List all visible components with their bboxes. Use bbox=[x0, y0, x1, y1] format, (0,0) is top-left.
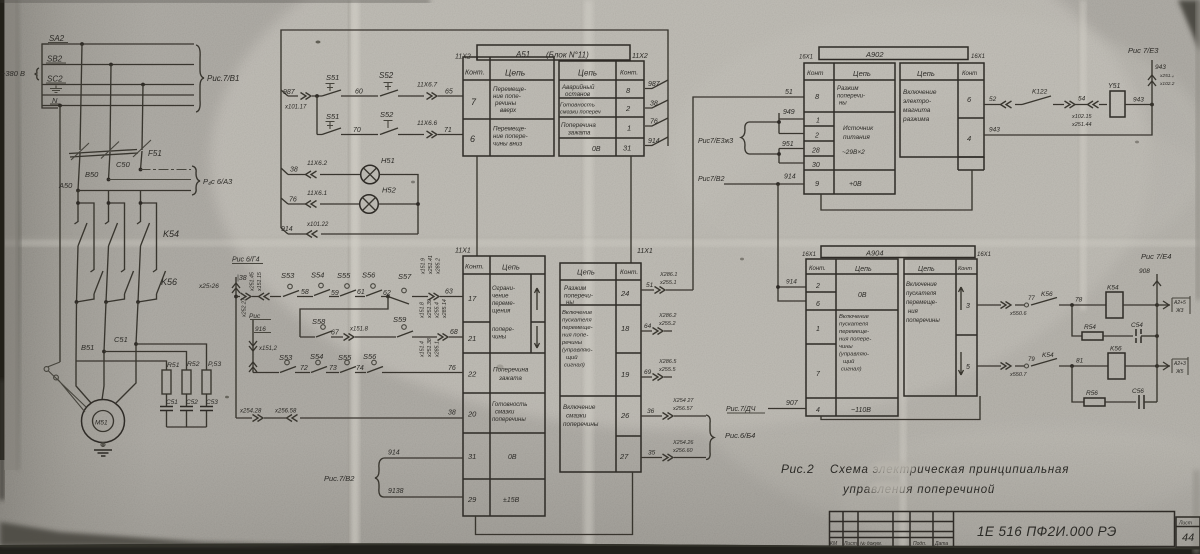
capacitor C52 bbox=[180, 394, 198, 427]
svg-text:81: 81 bbox=[1076, 358, 1084, 365]
svg-text:x255.1: x255.1 bbox=[659, 280, 677, 286]
svg-text:Готовность: Готовность bbox=[492, 402, 527, 408]
contact K54 bbox=[137, 222, 141, 225]
svg-text:R51: R51 bbox=[167, 362, 180, 369]
wire 914 to pin9 bbox=[698, 174, 806, 302]
switch S55 row3 bbox=[340, 367, 356, 373]
svg-text:Ж5: Ж5 bbox=[1175, 369, 1184, 375]
svg-text:K54: K54 bbox=[1042, 352, 1054, 359]
svg-text:ния попере-: ния попере- bbox=[839, 337, 871, 343]
creases / folds bbox=[348, 0, 351, 554]
svg-text:74: 74 bbox=[356, 365, 364, 372]
svg-text:C50: C50 bbox=[116, 160, 131, 169]
svg-text:Puc7/Е3ж3: Puc7/Е3ж3 bbox=[698, 138, 733, 145]
svg-text:907: 907 bbox=[786, 400, 799, 407]
svg-text:C53: C53 bbox=[206, 399, 218, 406]
svg-text:чины: чины bbox=[492, 335, 507, 341]
svg-text:78: 78 bbox=[1075, 297, 1083, 304]
svg-text:x151.8: x151.8 bbox=[420, 302, 426, 319]
node junction bbox=[139, 201, 143, 205]
svg-text:908: 908 bbox=[1139, 268, 1150, 275]
node junction bbox=[76, 201, 80, 205]
svg-text:Аварийный: Аварийный bbox=[561, 84, 595, 91]
svg-text:попере-: попере- bbox=[492, 327, 514, 333]
motor terminals bbox=[44, 367, 49, 372]
svg-text:11X1: 11X1 bbox=[455, 248, 471, 255]
svg-text:16X1: 16X1 bbox=[977, 252, 991, 258]
svg-text:S55: S55 bbox=[338, 353, 352, 362]
wire row2 bbox=[300, 299, 463, 340]
svg-text:ны: ны bbox=[566, 299, 574, 306]
contact K54 bbox=[105, 222, 109, 225]
svg-text:A904: A904 bbox=[865, 249, 884, 258]
svg-text:Конт: Конт bbox=[958, 266, 972, 272]
svg-text:x255.4: x255.4 bbox=[435, 302, 441, 319]
capacitor C54 bbox=[1136, 329, 1141, 343]
wire 65 to pin7 bbox=[417, 82, 463, 100]
svg-text:вверх: вверх bbox=[500, 107, 517, 114]
svg-text:пускателя: пускателя bbox=[562, 318, 592, 324]
svg-text:0B: 0B bbox=[592, 146, 601, 153]
svg-text:x285.14: x285.14 bbox=[442, 299, 448, 319]
wire 914 lamp return bbox=[281, 222, 418, 238]
svg-text:S53: S53 bbox=[279, 353, 293, 362]
svg-text:Цепь: Цепь bbox=[577, 268, 595, 277]
svg-text:P₄c 6/A3: P₄c 6/A3 bbox=[203, 177, 233, 186]
svg-text:54: 54 bbox=[1078, 96, 1086, 103]
svg-text:Puc7/B2: Puc7/B2 bbox=[698, 176, 725, 183]
svg-text:x25›26: x25›26 bbox=[198, 283, 219, 290]
svg-text:S59: S59 bbox=[393, 315, 407, 324]
svg-text:K122: K122 bbox=[1032, 89, 1048, 96]
svg-text:поперечины: поперечины bbox=[906, 318, 940, 324]
svg-text:72: 72 bbox=[300, 365, 308, 372]
svg-text:|38: |38 bbox=[237, 275, 247, 282]
svg-text:Готовность: Готовность bbox=[560, 103, 595, 109]
svg-text:5: 5 bbox=[966, 364, 970, 371]
svg-text:77: 77 bbox=[1028, 296, 1035, 302]
svg-text:Puc.6/Б4: Puc.6/Б4 bbox=[725, 431, 755, 440]
svg-text:76: 76 bbox=[289, 197, 297, 204]
svg-text:X286.1: X286.1 bbox=[659, 272, 677, 278]
svg-text:SA2: SA2 bbox=[49, 34, 65, 43]
svg-text:x151.8: x151.8 bbox=[349, 327, 369, 333]
svg-text:21: 21 bbox=[467, 334, 476, 343]
switch S59 bbox=[397, 331, 413, 337]
svg-text:38: 38 bbox=[650, 101, 658, 108]
wire A bbox=[76, 302, 91, 403]
wire 52 K122 Y51 bbox=[984, 83, 1154, 128]
svg-text:914: 914 bbox=[784, 174, 796, 181]
svg-text:щения: щения bbox=[492, 309, 511, 315]
svg-text:Перемеще-: Перемеще- bbox=[493, 126, 526, 133]
svg-text:S52: S52 bbox=[379, 71, 394, 80]
svg-text:68: 68 bbox=[450, 329, 458, 336]
table A904 left bbox=[806, 259, 898, 416]
svg-text:943: 943 bbox=[1133, 97, 1144, 104]
svg-text:67: 67 bbox=[331, 330, 340, 337]
svg-text:X286.5: X286.5 bbox=[658, 359, 677, 365]
svg-text:Конт.: Конт. bbox=[809, 266, 826, 272]
svg-text:38: 38 bbox=[290, 167, 298, 174]
caption figure title bbox=[781, 461, 1069, 496]
wire capacitor common rail bbox=[167, 426, 207, 428]
svg-text:x151.9: x151.9 bbox=[421, 258, 427, 275]
svg-text:51: 51 bbox=[646, 282, 654, 289]
svg-text:C51: C51 bbox=[114, 335, 128, 344]
svg-text:16X1: 16X1 bbox=[799, 55, 813, 61]
wire A904 outline bbox=[821, 396, 980, 420]
table 11X1 right bbox=[560, 263, 641, 472]
svg-text:Цепь: Цепь bbox=[578, 69, 597, 78]
svg-text:71: 71 bbox=[444, 127, 452, 134]
svg-text:зажата: зажата bbox=[498, 375, 522, 382]
wire pin5 to K56 coil bbox=[977, 346, 1188, 380]
contact K54 bbox=[1031, 359, 1057, 367]
svg-text:1: 1 bbox=[816, 326, 820, 333]
svg-text:Конт.: Конт. bbox=[620, 70, 638, 77]
wire 914/9138 Ris.7/V2 bbox=[324, 450, 463, 498]
capacitor C56 bbox=[1139, 395, 1144, 409]
wire R56/C56 branch bbox=[1072, 366, 1157, 409]
bracket left bbox=[42, 44, 58, 108]
op block A51 header bbox=[455, 45, 648, 61]
node N bbox=[58, 104, 62, 108]
contactor K56 bypass contacts bbox=[75, 201, 220, 304]
wire 51 right of pin24 bbox=[641, 272, 693, 294]
wire SB2 bbox=[42, 64, 194, 66]
contact K56 bbox=[153, 270, 157, 273]
node A bbox=[80, 42, 84, 46]
svg-text:чины: чины bbox=[839, 344, 853, 350]
svg-text:переме-: переме- bbox=[492, 301, 515, 307]
svg-text:Puc.2: Puc.2 bbox=[781, 462, 814, 476]
svg-text:30: 30 bbox=[812, 162, 820, 169]
svg-text:73: 73 bbox=[329, 365, 337, 372]
table 11X2 left bbox=[463, 57, 554, 156]
wire branch to lower row bbox=[316, 96, 318, 135]
switch S56 bbox=[366, 290, 382, 296]
wire R54/C54 branch bbox=[1072, 305, 1159, 343]
wire 69 bbox=[641, 359, 677, 381]
contact K122 bbox=[1022, 96, 1051, 105]
wire row3 bbox=[253, 338, 463, 372]
wire 908 Ris7/E4 bbox=[1139, 252, 1171, 402]
svg-text:29: 29 bbox=[467, 495, 477, 504]
svg-text:11X6.7: 11X6.7 bbox=[417, 82, 438, 89]
wire 36 bbox=[641, 398, 706, 420]
wire 71 to pin6 bbox=[417, 120, 463, 138]
coil K54 bbox=[1106, 292, 1123, 318]
svg-text:x251.38: x251.38 bbox=[427, 338, 433, 358]
svg-text:x285.2: x285.2 bbox=[436, 258, 442, 275]
svg-text:44: 44 bbox=[1182, 532, 1194, 544]
wire 38 row4 bbox=[236, 409, 463, 422]
svg-text:H52: H52 bbox=[382, 186, 397, 195]
svg-text:X286.2: X286.2 bbox=[658, 313, 676, 319]
svg-text:x254.28: x254.28 bbox=[239, 409, 262, 415]
wire 987 bbox=[283, 89, 322, 111]
capacitor C51 bbox=[160, 394, 178, 427]
svg-text:76: 76 bbox=[448, 365, 456, 372]
svg-text:x255.5: x255.5 bbox=[658, 367, 676, 373]
switch S56 row3 bbox=[367, 367, 383, 373]
capacitor C53 bbox=[200, 394, 218, 427]
svg-text:Конт: Конт bbox=[962, 71, 977, 77]
svg-text:914: 914 bbox=[388, 450, 400, 457]
svg-text:речины: речины bbox=[494, 100, 517, 107]
title block list no bbox=[1176, 517, 1200, 547]
svg-text:поперечины: поперечины bbox=[492, 417, 526, 423]
brace Ris.7/V1 bbox=[196, 45, 204, 112]
svg-text:1: 1 bbox=[627, 124, 631, 133]
svg-text:K56: K56 bbox=[1110, 346, 1122, 353]
svg-text:ния: ния bbox=[908, 309, 919, 315]
motor M51 bbox=[44, 362, 124, 443]
wire phase drop bbox=[77, 191, 79, 303]
svg-text:Puc 7/Е3: Puc 7/Е3 bbox=[1128, 46, 1159, 55]
wire bypass bbox=[106, 203, 125, 302]
svg-text:S56: S56 bbox=[362, 271, 376, 280]
specks bbox=[316, 41, 321, 44]
wire 51 bus bbox=[693, 89, 804, 290]
svg-text:27: 27 bbox=[619, 452, 629, 461]
svg-text:19: 19 bbox=[621, 370, 630, 379]
contact K56 bbox=[91, 270, 95, 273]
node C bbox=[141, 83, 145, 87]
svg-text:A2+5: A2+5 bbox=[1173, 300, 1186, 306]
svg-text:16X1: 16X1 bbox=[971, 54, 985, 60]
svg-text:31: 31 bbox=[468, 452, 476, 461]
wire pin3 to K54 coil bbox=[977, 285, 1190, 319]
svg-text:чины вниз: чины вниз bbox=[493, 141, 522, 148]
solenoid Y51 bbox=[1110, 91, 1125, 117]
svg-text:смазки попереч: смазки попереч bbox=[560, 110, 601, 116]
switch S55 bbox=[340, 290, 356, 296]
contact K54 bbox=[75, 222, 79, 225]
svg-text:+0B: +0B bbox=[849, 181, 862, 188]
svg-text:S54: S54 bbox=[310, 352, 323, 361]
wire SC2 bbox=[42, 84, 194, 86]
svg-text:смазки: смазки bbox=[495, 410, 515, 416]
svg-text:перемеще-: перемеще- bbox=[562, 325, 593, 331]
svg-text:11X1: 11X1 bbox=[637, 248, 653, 255]
svg-text:17: 17 bbox=[468, 294, 477, 303]
svg-text:щий: щий bbox=[566, 354, 578, 361]
svg-text:A902: A902 bbox=[865, 50, 884, 59]
svg-text:24: 24 bbox=[620, 289, 629, 298]
svg-text:A50: A50 bbox=[58, 181, 73, 190]
svg-text:914: 914 bbox=[648, 138, 660, 145]
svg-text:Разжим: Разжим bbox=[564, 285, 587, 292]
svg-text:x550.7: x550.7 bbox=[1009, 372, 1027, 378]
svg-text:пускателя: пускателя bbox=[839, 322, 868, 328]
svg-text:69: 69 bbox=[644, 369, 652, 376]
svg-text:31: 31 bbox=[623, 144, 631, 153]
node A50 bbox=[58, 151, 233, 195]
svg-text:x251.₄: x251.₄ bbox=[1159, 73, 1174, 79]
svg-text:52: 52 bbox=[989, 96, 997, 103]
table 11X2 right bbox=[559, 61, 644, 156]
svg-text:Цепь: Цепь bbox=[918, 266, 935, 273]
svg-text:SC2: SC2 bbox=[47, 75, 63, 84]
svg-text:~29B×2: ~29B×2 bbox=[842, 149, 865, 156]
op block A902 header bbox=[799, 47, 985, 61]
svg-text:x256.60: x256.60 bbox=[672, 448, 694, 454]
title block bbox=[830, 512, 1200, 548]
node junction bbox=[107, 201, 111, 205]
svg-text:C52: C52 bbox=[186, 399, 198, 406]
switch S52 lower bbox=[380, 110, 424, 135]
coil K56 bbox=[1108, 353, 1125, 379]
svg-text:x251.39: x251.39 bbox=[427, 299, 433, 319]
svg-text:943: 943 bbox=[989, 127, 1000, 134]
wire snubber rail C bbox=[136, 344, 207, 370]
svg-text:R54: R54 bbox=[1084, 324, 1096, 331]
svg-text:ния попе-: ния попе- bbox=[562, 333, 588, 339]
svg-text:Puc.7/ДЧ: Puc.7/ДЧ bbox=[726, 406, 756, 413]
svg-text:x102.2: x102.2 bbox=[1159, 81, 1175, 87]
wire 907 bbox=[726, 400, 806, 413]
svg-text:6: 6 bbox=[470, 134, 475, 144]
svg-text:Y51: Y51 bbox=[1108, 83, 1121, 90]
svg-text:Лист: Лист bbox=[1178, 521, 1192, 527]
svg-text:поперечи-: поперечи- bbox=[837, 94, 865, 100]
frame bottom line bbox=[0, 544, 1200, 548]
ground motor bbox=[94, 443, 112, 457]
wire N bbox=[42, 105, 194, 107]
wire phase C drop bbox=[142, 85, 143, 151]
svg-text:987: 987 bbox=[283, 89, 296, 96]
svg-text:79: 79 bbox=[1028, 357, 1035, 363]
svg-text:59: 59 bbox=[331, 290, 339, 297]
svg-text:S56: S56 bbox=[363, 352, 377, 361]
svg-text:x151.4: x151.4 bbox=[420, 341, 426, 358]
paper edges bbox=[0, 0, 5, 460]
svg-text:Цепь: Цепь bbox=[917, 69, 935, 78]
switch S51 lower bbox=[317, 112, 378, 135]
lamp H52 bbox=[360, 186, 420, 214]
svg-text:Конт.: Конт. bbox=[620, 269, 638, 276]
switch S54 row3 bbox=[311, 367, 327, 373]
svg-text:управления поперечиной: управления поперечиной bbox=[842, 484, 995, 496]
svg-text:X254.26: X254.26 bbox=[672, 440, 694, 446]
svg-text:Цепь: Цепь bbox=[502, 263, 520, 272]
table A904 right bbox=[904, 259, 977, 396]
svg-text:S51: S51 bbox=[326, 73, 339, 82]
svg-text:(управляю-: (управляю- bbox=[562, 348, 592, 354]
svg-text:Конт.: Конт. bbox=[465, 70, 485, 77]
svg-text:63: 63 bbox=[445, 289, 453, 296]
svg-text:ны: ны bbox=[839, 101, 847, 107]
svg-text:914: 914 bbox=[281, 226, 293, 233]
svg-text:K56: K56 bbox=[161, 277, 177, 287]
wire B50 out bbox=[109, 179, 192, 181]
svg-text:S52: S52 bbox=[380, 110, 394, 119]
svg-text:76: 76 bbox=[650, 119, 658, 126]
node B bbox=[109, 63, 113, 67]
svg-text:x101.17: x101.17 bbox=[284, 105, 307, 111]
svg-text:70: 70 bbox=[353, 127, 361, 134]
svg-text:11X6.2: 11X6.2 bbox=[307, 160, 328, 167]
op block A904 header bbox=[802, 246, 991, 258]
svg-text:0B: 0B bbox=[508, 454, 517, 461]
motor M51 feeders bbox=[76, 302, 207, 403]
wire snubber rail B bbox=[104, 352, 187, 371]
svg-text:перемеще-: перемеще- bbox=[839, 329, 869, 335]
wire taps right bbox=[645, 80, 668, 146]
wire bypass bbox=[77, 203, 95, 302]
wire N drop bbox=[59, 106, 61, 363]
svg-text:x252.27: x252.27 bbox=[242, 297, 248, 318]
contact K56 bbox=[1031, 298, 1057, 306]
svg-text:35: 35 bbox=[648, 450, 656, 457]
svg-text:Включение: Включение bbox=[562, 310, 593, 316]
resistor R56 bbox=[1084, 398, 1105, 406]
svg-text:2: 2 bbox=[625, 104, 631, 113]
svg-text:Puc 6/Г4: Puc 6/Г4 bbox=[232, 257, 260, 264]
svg-text:Ограни-: Ограни- bbox=[492, 286, 515, 292]
ground PE bbox=[50, 86, 62, 93]
switch S54 bbox=[314, 290, 330, 296]
svg-text:11X2: 11X2 bbox=[632, 53, 648, 60]
svg-text:Поперечина: Поперечина bbox=[561, 122, 596, 129]
svg-text:Включение: Включение bbox=[906, 282, 938, 288]
svg-text:x256.58: x256.58 bbox=[274, 409, 297, 415]
svg-text:Включение: Включение bbox=[839, 314, 870, 320]
wire C50 out bbox=[141, 169, 192, 171]
svg-text:останов: останов bbox=[565, 91, 591, 98]
svg-text:6: 6 bbox=[816, 301, 820, 308]
resistor R51 bbox=[162, 362, 180, 394]
svg-text:S51: S51 bbox=[326, 112, 339, 121]
svg-text:4: 4 bbox=[967, 134, 971, 143]
wire 64 bbox=[641, 313, 676, 335]
svg-text:речины: речины bbox=[561, 340, 583, 346]
svg-text:26: 26 bbox=[620, 411, 630, 420]
switch S52 upper bbox=[379, 71, 424, 96]
wire 943 from pin4 bbox=[984, 105, 1152, 136]
wire snubber rail A bbox=[76, 361, 167, 370]
brace Ris 6/A3 bbox=[192, 166, 200, 195]
svg-text:S57: S57 bbox=[398, 272, 412, 281]
wire 76 lamp row bbox=[288, 190, 360, 208]
svg-text:1E 516 ПФ2И.000 PЭ: 1E 516 ПФ2И.000 PЭ bbox=[977, 524, 1117, 539]
svg-text:1: 1 bbox=[816, 118, 820, 125]
svg-text:x151.15: x151.15 bbox=[257, 272, 263, 292]
svg-text:ние попере-: ние попере- bbox=[493, 133, 528, 140]
svg-text:P,53: P,53 bbox=[208, 361, 221, 368]
svg-text:987: 987 bbox=[648, 81, 661, 88]
svg-text:Поперечина: Поперечина bbox=[493, 367, 529, 374]
wire A902 outline bbox=[821, 170, 972, 210]
svg-text:949: 949 bbox=[783, 109, 795, 116]
svg-text:Включение: Включение bbox=[903, 89, 937, 96]
svg-text:22: 22 bbox=[467, 370, 477, 379]
label Ris.6/B4 bbox=[725, 431, 755, 440]
wire block sides bbox=[477, 57, 630, 61]
svg-text:x251.44: x251.44 bbox=[1071, 122, 1092, 128]
wire 949/951 brace Ris7/E3zh3 bbox=[698, 109, 804, 163]
svg-text:Цепь: Цепь bbox=[855, 266, 872, 273]
svg-text:64: 64 bbox=[644, 323, 652, 330]
wire phase drop bbox=[138, 191, 141, 303]
svg-text:±15B: ±15B bbox=[503, 497, 520, 504]
svg-text:~110B: ~110B bbox=[851, 407, 871, 414]
svg-text:x251.45: x251.45 bbox=[250, 272, 256, 292]
svg-text:Puc.7/B1: Puc.7/B1 bbox=[207, 74, 239, 83]
svg-text:58: 58 bbox=[301, 289, 309, 296]
